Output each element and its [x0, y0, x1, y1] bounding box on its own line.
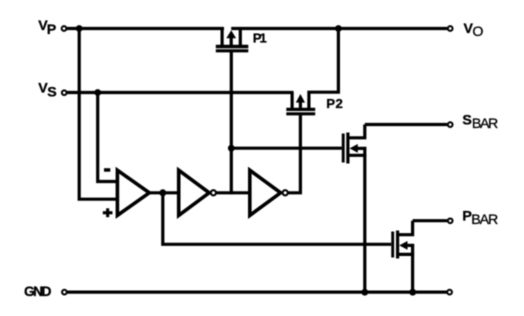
U2 output bubble [211, 190, 216, 195]
Q1 source lead [348, 154, 366, 157]
Q1 channel bar [346, 133, 349, 164]
wire VP rail right segment to VO [231, 27, 447, 30]
label VS [38, 81, 56, 101]
wire node X to Q1 gate [231, 147, 341, 150]
wire VO node down to P2 right stub [309, 29, 339, 111]
P1 arrow head [226, 30, 236, 38]
inverter U3 [250, 170, 288, 215]
Q1 arrow head [350, 144, 358, 153]
P1 arrow shaft [230, 37, 233, 47]
Q2 channel bar [396, 231, 399, 259]
P1 left stub [221, 29, 224, 47]
junction VS rail [94, 89, 101, 96]
P2 arrow head [296, 94, 305, 103]
wire U3 output up to P2 gate [288, 115, 300, 193]
wire VP rail left segment [67, 27, 224, 30]
wire S_BAR [365, 123, 447, 126]
junction Q2 source at GND [409, 289, 416, 296]
svg-text:BAR: BAR [472, 116, 498, 132]
label VP [38, 18, 56, 38]
P1 bottom plate (gate) [216, 49, 249, 52]
Q1 drain lead [348, 125, 365, 138]
U1 plus input label [103, 208, 113, 217]
svg-text:P2: P2 [326, 96, 343, 111]
P2 arrow shaft [299, 102, 302, 110]
junction VP rail [76, 25, 83, 32]
transistor P1 [216, 29, 249, 51]
Q2 source lead [398, 253, 415, 256]
wire U2 output to U3 input [216, 191, 251, 194]
terminal VO [448, 26, 453, 31]
wire comparator output to inverter U2 [149, 191, 179, 194]
terminal P_BAR [448, 218, 453, 223]
wire P1 gate down to node X and inverter chain [230, 52, 233, 194]
svg-text:BAR: BAR [471, 212, 498, 228]
P1 right stub [239, 29, 242, 47]
svg-text:S: S [47, 85, 56, 101]
wire P_BAR [413, 219, 447, 222]
svg-text:P: P [47, 22, 56, 38]
P2 bottom plate (gate) [286, 112, 315, 115]
wire VS rail [67, 91, 294, 94]
P2 top plate [286, 108, 315, 111]
terminal GND right [447, 290, 452, 295]
terminal VS [62, 90, 67, 95]
label VO [464, 21, 484, 40]
wire VP vertical to comparator + input [79, 29, 119, 200]
svg-text:GND: GND [24, 284, 52, 299]
junction node X [228, 145, 235, 152]
op-amp U1 comparator [117, 170, 149, 215]
transistor P2 [286, 93, 315, 114]
Q1 arrow shaft [357, 147, 367, 150]
U1 minus input label [104, 168, 110, 172]
wire GND rail [67, 291, 447, 294]
wire VS vertical to comparator - input [98, 93, 119, 182]
Q2 arrow shaft [406, 244, 414, 247]
wire node A down and across to Q2 gate [163, 193, 391, 245]
Q2 source vertical down to GND [411, 244, 414, 292]
Q2 arrow head [399, 241, 407, 250]
P1 top plate [216, 45, 249, 48]
junction VO node [335, 25, 342, 32]
Q1 source vertical down to GND [363, 147, 366, 292]
Q1 gate bar [342, 134, 345, 163]
P2 left stub [291, 93, 294, 111]
U3 output bubble [283, 190, 288, 195]
label P_BAR [462, 209, 498, 228]
terminal VP [62, 26, 67, 31]
transistor Q2 (P_BAR output NMOS) [393, 221, 414, 292]
svg-text:P1: P1 [253, 31, 267, 46]
label S_BAR [462, 112, 498, 132]
terminal GND left [62, 290, 67, 295]
svg-text:O: O [472, 24, 483, 40]
inverter U2 [179, 170, 216, 215]
svg-text:S: S [462, 112, 471, 128]
Q2 drain lead [398, 221, 413, 235]
junction Q1 source at GND [361, 289, 368, 296]
transistor Q1 (S_BAR output NMOS) [343, 125, 366, 293]
terminal S_BAR [448, 122, 453, 127]
Q2 gate bar [391, 232, 394, 258]
junction node A (comparator output) [159, 189, 166, 196]
